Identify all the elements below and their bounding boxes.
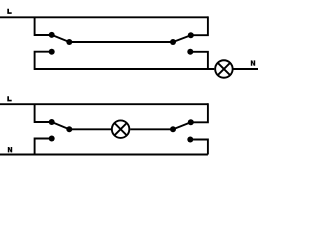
wire: right drop from L to switch S4 upper terminal xyxy=(191,103,208,122)
wire: L feed, top horizontal xyxy=(0,16,208,18)
wire: traveller between S1 and S2 pivots xyxy=(69,41,173,43)
lamp E1 cross xyxy=(217,62,230,75)
wire: lamp to N xyxy=(234,68,259,70)
switch S4 pivot dot xyxy=(170,126,176,132)
wire: S3 pivot to lamp E2 xyxy=(69,128,111,130)
switch S2 lever xyxy=(173,35,191,42)
net label L (bottom diagram) xyxy=(7,96,11,101)
switch S3 upper terminal dot xyxy=(49,119,55,125)
wire: lamp E2 to S4 pivot xyxy=(130,128,173,130)
switch S1 lever xyxy=(52,35,70,42)
lamp E2 cross xyxy=(114,123,127,136)
net label N (bottom diagram) xyxy=(8,147,12,152)
net label L (top diagram) xyxy=(7,9,11,14)
switch S4 lever xyxy=(173,122,191,129)
net label N (top diagram) xyxy=(251,60,255,65)
wire: right drop from L to switch S2 upper terminal xyxy=(191,16,208,35)
switch S2 upper terminal dot xyxy=(188,32,194,38)
wire: branch from L down to switch S1 upper terminal xyxy=(35,17,52,35)
switch S2 lower terminal dot xyxy=(187,49,193,55)
switch S3 lever xyxy=(52,122,70,129)
wire: S3 lower terminal down to N rail xyxy=(35,139,52,155)
lamp E1 circle xyxy=(215,60,233,78)
wire: N rail, bottom horizontal xyxy=(0,154,208,156)
switch S4 upper terminal dot xyxy=(188,119,194,125)
wire: branch from L down to switch S3 upper terminal xyxy=(35,104,52,122)
switch S4 lower terminal dot xyxy=(187,137,193,143)
switch S1 upper terminal dot xyxy=(49,32,55,38)
wire: S2 lower terminal drop to lamp rail xyxy=(190,52,208,69)
switch S2 pivot dot xyxy=(170,39,176,45)
lamp E2 circle xyxy=(112,120,130,138)
switch S1 lower terminal dot xyxy=(49,49,55,55)
wire: L feed, top horizontal (bottom diagram) xyxy=(0,103,208,105)
switch S3 lower terminal dot xyxy=(49,136,55,142)
wire: S1 lower terminal down to lamp rail xyxy=(35,52,215,69)
switch S3 pivot dot xyxy=(66,126,72,132)
wire: S4 lower terminal drop to N rail xyxy=(190,140,208,155)
switch S1 pivot dot xyxy=(66,39,72,45)
